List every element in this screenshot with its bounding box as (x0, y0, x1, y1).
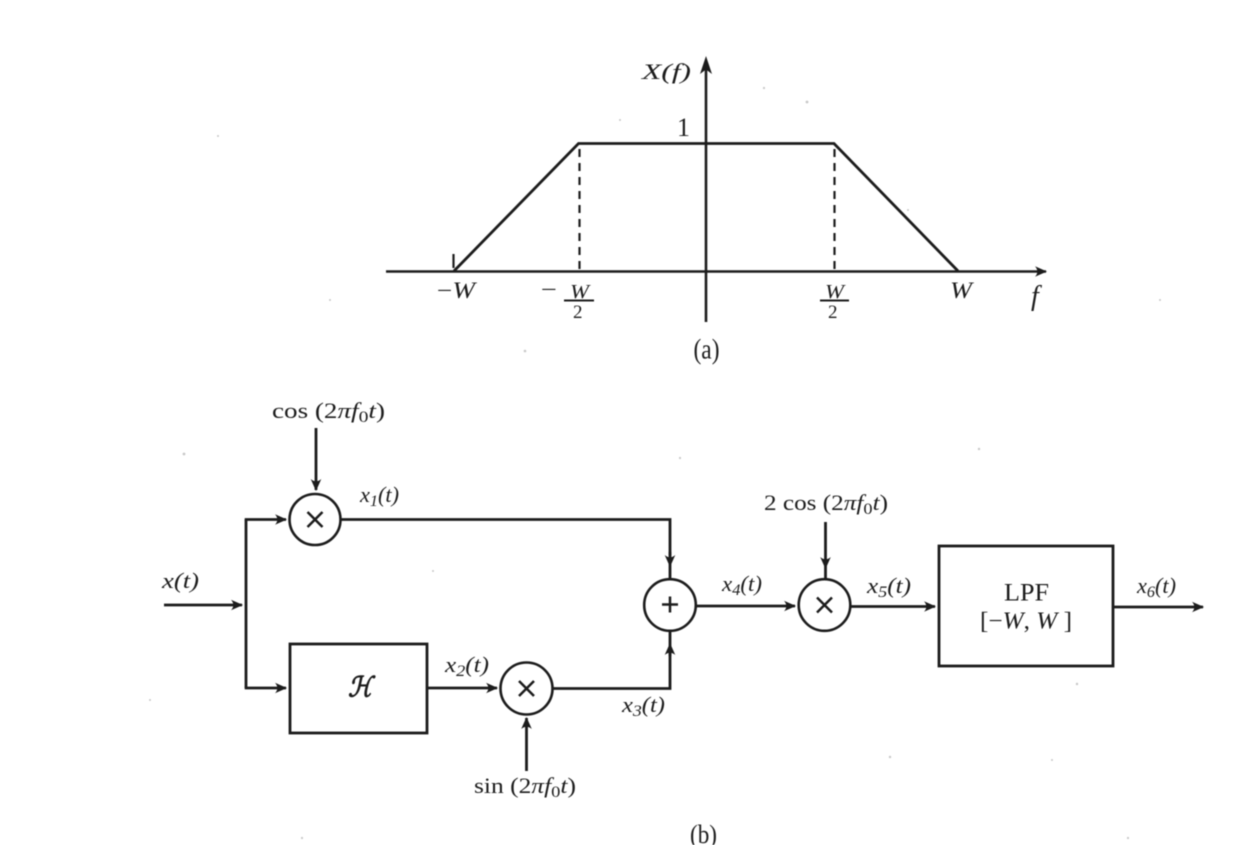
svg-text:x2(t): x2(t) (444, 652, 489, 680)
svg-text:1: 1 (677, 113, 690, 142)
svg-text:f: f (1031, 281, 1042, 312)
svg-text:(a): (a) (694, 335, 720, 366)
svg-text:x5(t): x5(t) (866, 573, 911, 601)
svg-text:2: 2 (828, 302, 838, 323)
svg-text:[−W, W ]: [−W, W ] (980, 609, 1072, 635)
svg-text:x6(t): x6(t) (1136, 573, 1176, 601)
svg-text:2 cos (2πf0t): 2 cos (2πf0t) (764, 490, 888, 518)
svg-text:−: − (541, 277, 557, 302)
svg-text:x3(t): x3(t) (621, 692, 665, 720)
svg-text:W: W (950, 278, 974, 303)
svg-text:x4(t): x4(t) (721, 571, 762, 599)
svg-text:2: 2 (573, 302, 583, 323)
svg-text:X(f): X(f) (641, 59, 691, 84)
svg-text:(b): (b) (690, 820, 717, 845)
svg-text:ℋ: ℋ (348, 673, 376, 704)
svg-text:LPF: LPF (1004, 580, 1049, 607)
svg-text:cos (2πf0t): cos (2πf0t) (272, 398, 385, 426)
svg-text:x1(t): x1(t) (359, 482, 399, 510)
svg-text:sin (2πf0t): sin (2πf0t) (474, 773, 576, 801)
svg-text:x(t): x(t) (161, 568, 199, 593)
svg-text:−W: −W (437, 278, 477, 303)
